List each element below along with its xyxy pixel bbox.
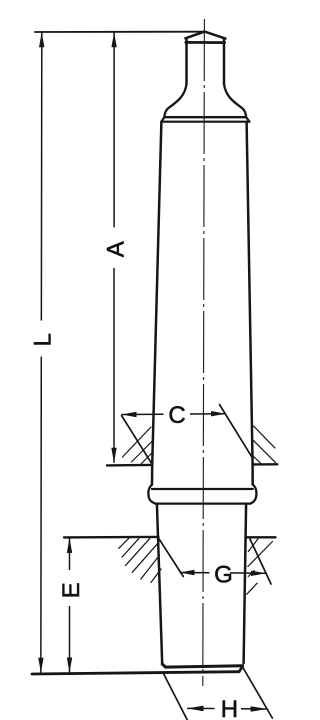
- dimension C line: [122, 413, 227, 416]
- svg-text:C: C: [168, 402, 185, 429]
- C hatch left: [123, 427, 153, 464]
- svg-text:H: H: [221, 696, 238, 720]
- centerline: [203, 19, 205, 686]
- G break diagonal left: [158, 537, 183, 576]
- G hatch right: [247, 539, 273, 594]
- tang: [185, 32, 225, 84]
- dimension L line: [40, 32, 43, 673]
- G hatch left: [119, 538, 162, 582]
- G break diagonal right: [250, 539, 271, 584]
- svg-text:G: G: [214, 562, 233, 589]
- H witness diagonal right: [243, 667, 273, 718]
- G top line left: [64, 536, 159, 539]
- collar: [148, 485, 256, 504]
- arrow G left: [180, 570, 195, 575]
- arrow C left: [122, 412, 137, 417]
- top dimension line: [35, 31, 204, 33]
- H witness diagonal left: [164, 674, 188, 720]
- arrow H left: [187, 706, 204, 712]
- arrow E bottom: [67, 658, 72, 673]
- dimension E line: [69, 538, 71, 673]
- G top line right: [246, 536, 275, 538]
- C break diagonal left: [122, 416, 152, 464]
- taper body sides: [152, 122, 253, 485]
- svg-text:A: A: [102, 241, 129, 257]
- dimension H line: [187, 707, 267, 710]
- baseline: [32, 667, 243, 674]
- arrow G right: [251, 571, 266, 576]
- arrow E top: [67, 538, 72, 553]
- arrow L top: [39, 32, 44, 47]
- tang flare: [164, 84, 246, 117]
- dimension G line: [180, 572, 267, 575]
- arrow L bottom: [38, 658, 43, 673]
- svg-text:L: L: [30, 333, 57, 346]
- arrow C right: [211, 411, 226, 416]
- svg-text:E: E: [58, 582, 85, 598]
- dimension A line: [113, 32, 115, 463]
- body step: [161, 117, 249, 121]
- arrow A bottom: [111, 448, 116, 463]
- C hatch right: [254, 426, 276, 465]
- spindle face line right: [253, 463, 278, 466]
- spindle face line left: [107, 464, 152, 467]
- socket body: [157, 504, 246, 664]
- bottom face: [162, 664, 242, 667]
- arrow H right: [251, 706, 267, 712]
- arrow A top: [111, 32, 116, 47]
- C break diagonal right: [220, 405, 253, 459]
